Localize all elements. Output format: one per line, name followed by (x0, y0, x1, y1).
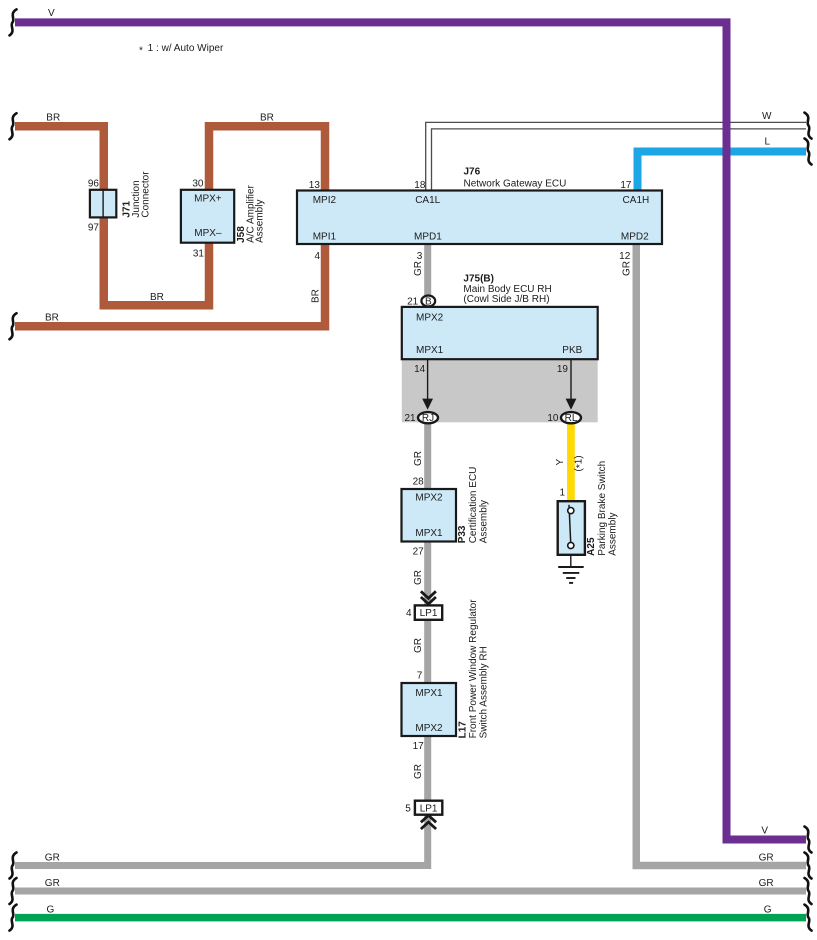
svg-text:GR: GR (413, 570, 424, 585)
svg-text:GR: GR (413, 638, 424, 653)
svg-text:1: 1 (559, 487, 565, 498)
svg-text:MPI2: MPI2 (313, 195, 337, 206)
svg-text:17: 17 (620, 180, 632, 191)
svg-text:GR: GR (413, 451, 424, 466)
main body ECU J75(B) box (402, 307, 598, 359)
svg-text:MPX1: MPX1 (415, 688, 443, 699)
svg-text:(Cowl Side J/B RH): (Cowl Side J/B RH) (463, 294, 549, 305)
svg-text:V: V (48, 8, 55, 19)
svg-text:MPX+: MPX+ (194, 194, 222, 205)
break symbol left of bottom GR wire 1 (10, 853, 17, 879)
svg-text:GR: GR (413, 261, 424, 276)
svg-text:(*1): (*1) (574, 455, 587, 471)
break symbol right of bottom GR wire 1 (805, 853, 812, 879)
wire BR: J76 pin4 (MPI1) down and left to break (15, 243, 325, 326)
svg-text:B: B (425, 296, 432, 307)
J71 center divider (102, 190, 104, 217)
svg-text:MPX1: MPX1 (416, 345, 444, 356)
break symbol left of bottom G wire (10, 905, 17, 931)
svg-text:MPD2: MPD2 (621, 232, 649, 243)
svg-text:Front Power Window Regulator: Front Power Window Regulator (468, 599, 479, 739)
svg-text:G: G (764, 905, 772, 916)
break symbol right of wire V bottom (805, 827, 812, 853)
svg-text:L: L (764, 137, 770, 148)
svg-text:BR: BR (150, 292, 164, 303)
wire Y yellow: RL oval to parking brake switch pin1 (567, 419, 575, 509)
svg-text:21: 21 (404, 413, 416, 424)
ground below A25 (558, 555, 584, 583)
switch contacts A25 (568, 505, 574, 549)
svg-text:Assembly: Assembly (254, 200, 265, 243)
junction connector J71 box (90, 190, 116, 218)
svg-text:14: 14 (414, 364, 426, 375)
svg-text:7: 7 (417, 671, 423, 682)
svg-text:A25: A25 (586, 537, 597, 556)
svg-text:Switch Assembly RH: Switch Assembly RH (479, 646, 490, 738)
svg-text:PKB: PKB (562, 345, 582, 356)
svg-text:17: 17 (413, 741, 425, 752)
svg-text:RJ: RJ (422, 413, 434, 424)
chevron pair into LP1 (pin4) (421, 591, 436, 604)
svg-text:5: 5 (405, 803, 411, 814)
svg-text:L17: L17 (457, 721, 468, 739)
svg-text:18: 18 (414, 180, 426, 191)
svg-text:Y: Y (555, 459, 566, 466)
svg-text:V: V (761, 826, 768, 837)
wire GR: J76 MPD1 pin3 down to node B (424, 243, 431, 297)
svg-text:BR: BR (46, 113, 60, 124)
svg-text:GR: GR (621, 261, 632, 276)
svg-text:31: 31 (193, 249, 205, 260)
parking brake switch A25 box (558, 501, 585, 555)
svg-text:BR: BR (260, 113, 274, 124)
break symbol right of bottom GR wire 2 (805, 878, 812, 904)
arrow from MPX1 pin14 to RJ (422, 359, 433, 410)
svg-text:J76: J76 (464, 166, 481, 177)
break symbol left of bottom GR wire 2 (10, 878, 17, 904)
svg-text:GR: GR (45, 878, 60, 889)
svg-text:BR: BR (45, 313, 59, 324)
svg-text:3: 3 (417, 251, 423, 262)
svg-text:Parking Brake Switch: Parking Brake Switch (597, 461, 608, 556)
svg-text:W: W (762, 111, 772, 122)
svg-text:27: 27 (413, 547, 425, 558)
svg-text:Certification ECU: Certification ECU (468, 467, 479, 544)
wire L blue: from right break into J76 CA1H pin17 (638, 152, 807, 191)
svg-text:10: 10 (547, 413, 559, 424)
A/C amplifier J58 box (181, 190, 234, 243)
svg-text:21: 21 (407, 296, 419, 307)
svg-text:J75(B): J75(B) (463, 273, 494, 284)
connector LP1 (pin4) (415, 605, 442, 619)
wire BR: left break to J71 to lower loop into J58 pin31 (15, 126, 209, 305)
break symbol right of wire L (805, 139, 812, 165)
svg-text:Assembly: Assembly (478, 500, 489, 543)
node RL oval (561, 412, 581, 424)
svg-text:P33: P33 (457, 525, 468, 543)
svg-text:96: 96 (88, 179, 100, 190)
svg-text:4: 4 (314, 251, 320, 262)
certification ECU P33 box (402, 489, 457, 542)
chevron pair out of LP1 (pin5) (421, 815, 436, 829)
svg-text:CA1H: CA1H (623, 195, 650, 206)
svg-text:MPD1: MPD1 (414, 232, 442, 243)
break symbol left of bottom BR wire (10, 313, 17, 339)
svg-text:MPX–: MPX– (194, 228, 222, 239)
wire GR: J76 MPD2 pin12 down right side to bottom-right break (636, 243, 806, 866)
svg-text:12: 12 (619, 251, 631, 262)
svg-text:MPI1: MPI1 (313, 232, 337, 243)
node RJ oval (418, 412, 438, 424)
svg-text:MPX2: MPX2 (415, 492, 443, 503)
svg-text:LP1: LP1 (420, 608, 438, 619)
svg-text:4: 4 (406, 608, 412, 619)
break symbol left of wire V (10, 9, 17, 35)
break symbol right of wire W (805, 113, 812, 139)
svg-text:19: 19 (557, 364, 569, 375)
svg-text:13: 13 (309, 180, 321, 191)
wire W white outlined: from right break into J76 CA1L pin18 (426, 122, 806, 190)
svg-text:Assembly: Assembly (607, 512, 618, 555)
shaded J/B inner-circuit panel under J75(B) (402, 359, 598, 422)
svg-text:MPX2: MPX2 (416, 313, 444, 324)
node B circle on J75 top (421, 296, 435, 308)
svg-text:CA1L: CA1L (415, 195, 440, 206)
svg-text:GR: GR (45, 853, 60, 864)
svg-text:MPX2: MPX2 (415, 723, 443, 734)
wire G green: full-width bottom horizontal (15, 914, 806, 922)
svg-text:* 1 : w/ Auto Wiper: * 1 : w/ Auto Wiper (139, 43, 224, 57)
svg-text:BR: BR (310, 289, 321, 303)
break symbol right of bottom G wire (805, 905, 812, 931)
svg-text:GR: GR (413, 764, 424, 779)
svg-text:GR: GR (759, 878, 774, 889)
wire GR: second full-width bottom horizontal (15, 888, 806, 895)
break symbol left of top BR wire (10, 113, 17, 139)
svg-text:MPX1: MPX1 (415, 528, 443, 539)
connector LP1 (pin5) (415, 801, 442, 815)
svg-text:GR: GR (759, 853, 774, 864)
arrow from PKB pin19 to RL (566, 359, 577, 410)
svg-text:30: 30 (192, 179, 204, 190)
svg-text:28: 28 (413, 476, 425, 487)
svg-text:G: G (47, 905, 55, 916)
wire BR: J58 pin30 up, across, down to J76 pin13 (MPI2) (209, 126, 325, 191)
svg-text:97: 97 (88, 222, 100, 233)
svg-text:LP1: LP1 (420, 804, 438, 815)
wire GR: RJ oval down through P33, LP1, L17, LP1 to bottom-left break (15, 420, 428, 866)
network gateway ECU J76 box (297, 191, 662, 245)
svg-text:RL: RL (565, 413, 578, 424)
power window switch L17 box (402, 683, 457, 736)
svg-text:Network Gateway ECU: Network Gateway ECU (464, 178, 567, 189)
svg-text:Connector: Connector (141, 171, 152, 218)
